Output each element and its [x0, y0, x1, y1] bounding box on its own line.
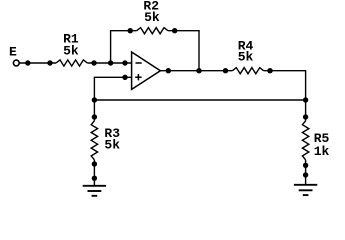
junction dot at inverting input [122, 60, 127, 65]
junction dot bottom left [92, 97, 97, 102]
ground left [83, 186, 106, 196]
junction dot at non-inverting input [122, 75, 127, 80]
junction dot output/feedback [196, 68, 201, 73]
junction dot R3 bottom [92, 161, 97, 166]
wire: bottom feedback rail [94, 99, 305, 101]
svg-text:1k: 1k [314, 144, 330, 159]
resistor R3 [91, 121, 97, 160]
junction dot after R1 [91, 60, 96, 65]
op-amp minus sign [136, 62, 142, 64]
wire: R3 bottom to ground [93, 160, 95, 186]
wire: R5 top stub [305, 100, 307, 121]
junction dot R2 right [172, 28, 177, 33]
junction dot bottom right [303, 97, 308, 102]
wire: feedback right vertical [198, 31, 200, 71]
junction dot above left ground [92, 176, 97, 181]
wire: feedback top left segment [110, 30, 137, 32]
wire: non-inverting input L-shape [94, 77, 131, 100]
node: feedback tap junction [108, 60, 113, 65]
op-amp plus sign [135, 76, 141, 78]
junction dot above right ground [303, 172, 308, 177]
junction dot R3 top [92, 114, 97, 119]
wire: right vertical down [305, 70, 307, 100]
svg-text:5k: 5k [63, 44, 79, 59]
wire: E terminal to R1 [19, 62, 56, 64]
wire: R1 to op-amp inverting input [87, 62, 131, 64]
junction dot input 2 [47, 60, 52, 65]
op-amp U1 [132, 52, 161, 89]
junction dot R4 right [267, 68, 272, 73]
junction dot R4 left [223, 68, 228, 73]
wire: R3 top stub [93, 100, 95, 121]
junction dot input 1 [25, 60, 30, 65]
resistor R2 [137, 28, 168, 34]
svg-text:5k: 5k [238, 50, 254, 65]
junction dot R5 bottom [303, 163, 308, 168]
svg-text:5k: 5k [144, 10, 160, 25]
ground right [294, 185, 317, 195]
svg-text:5k: 5k [104, 137, 120, 152]
terminal E [13, 60, 19, 66]
junction dot at output [166, 68, 171, 73]
wire: R4 to right corner [264, 70, 306, 72]
wire: op-amp output [160, 70, 232, 72]
junction dot R5 top [303, 114, 308, 119]
resistor R1 [56, 60, 87, 66]
resistor R4 [232, 68, 263, 74]
svg-text:E: E [9, 44, 17, 59]
junction dot R2 left [128, 28, 133, 33]
wire: feedback left vertical [110, 31, 112, 63]
resistor R5 [302, 121, 308, 160]
wire: feedback top right segment [168, 30, 200, 32]
wire: R5 bottom to ground [305, 160, 307, 185]
